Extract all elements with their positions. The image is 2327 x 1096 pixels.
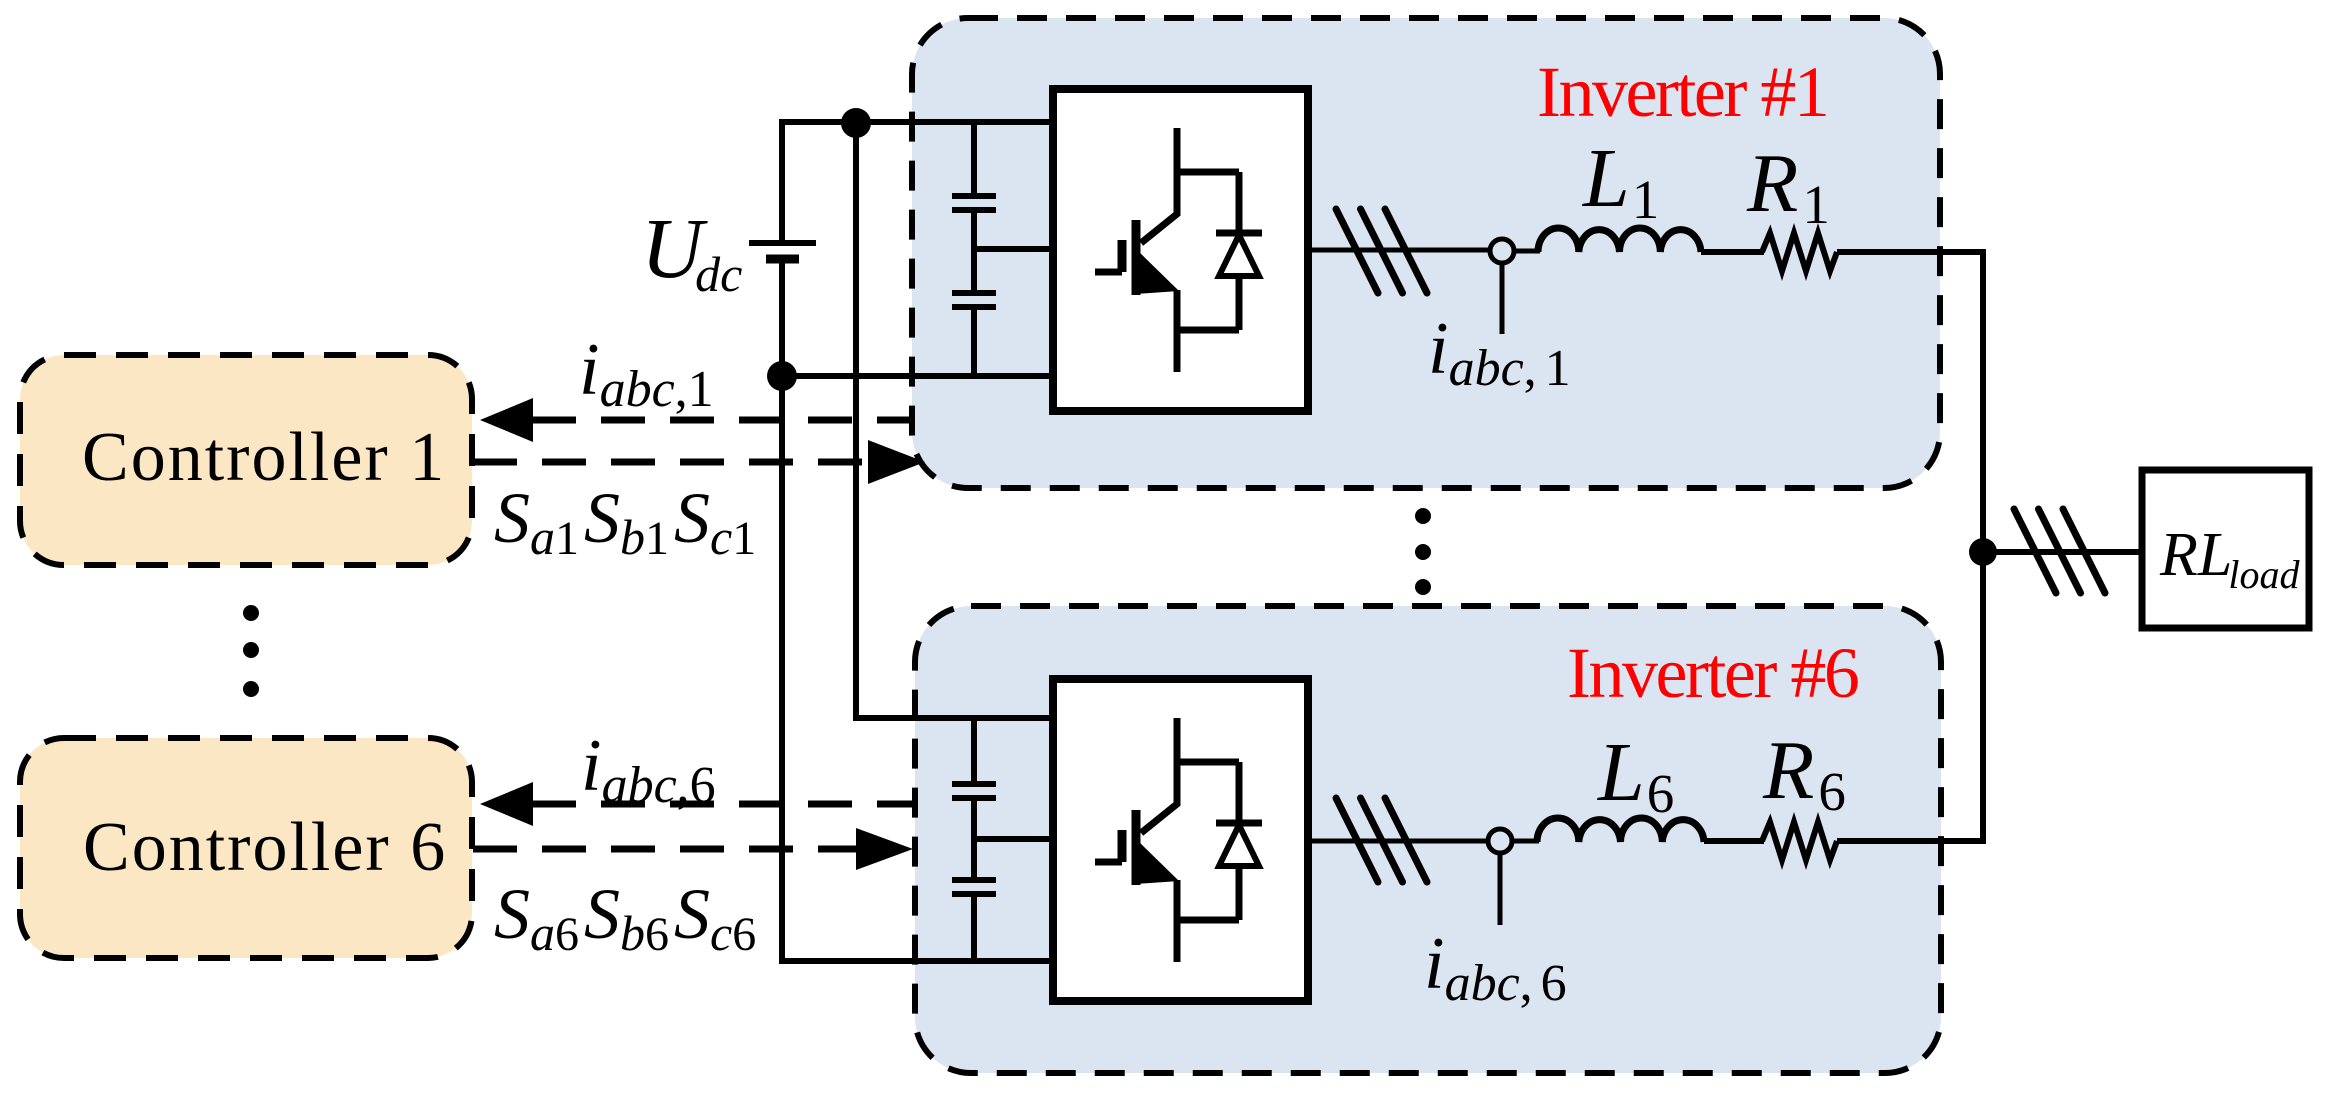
wire: inverter 1 return bus bbox=[782, 373, 1053, 379]
three-phase marks load feeder bbox=[2014, 509, 2105, 593]
wire: DC negative down-drop bbox=[779, 376, 785, 964]
junction node on return bus bbox=[767, 361, 797, 391]
label Sa1 Sb1 Sc1 bbox=[494, 478, 756, 565]
wire: DC source positive drop bbox=[779, 119, 785, 243]
junction node on top bus bbox=[841, 108, 871, 138]
controller 1 box bbox=[20, 355, 472, 565]
svg-text:Controller 1: Controller 1 bbox=[82, 419, 446, 496]
capacitor bank inverter 1 (two series capacitors) bbox=[952, 122, 996, 376]
capacitor bank inverter 6 (two series capacitors) bbox=[952, 718, 996, 961]
three-phase marks inverter 6 output bbox=[1336, 798, 1427, 882]
svg-text:Controller 6: Controller 6 bbox=[83, 809, 447, 886]
current sensor node i_abc,6 bbox=[1488, 829, 1512, 853]
wire: DC midpoint link inverter 1 bbox=[974, 246, 1053, 252]
controller 6 box bbox=[20, 738, 472, 958]
IGBT module inverter 1 bbox=[1053, 89, 1308, 411]
load RL_load box bbox=[2142, 470, 2309, 628]
dashed feedback i_abc,6 to controller 6 bbox=[532, 801, 915, 808]
wire: R6 to common bus bbox=[1837, 838, 1986, 844]
wire: sensor stub inverter 6 bbox=[1498, 853, 1503, 925]
dashed gate signals controller 1 to inverter 1 bbox=[473, 459, 868, 466]
wire: L1 to R1 bbox=[1701, 249, 1764, 255]
wire: sensor to inductor inverter 6 bbox=[1512, 839, 1539, 844]
arrowhead into inverter 1 bbox=[868, 440, 925, 484]
inverter #1 enclosure (dashed blue box) bbox=[912, 18, 1940, 488]
dashed feedback i_abc,1 to controller 1 bbox=[532, 417, 909, 424]
wire: inverter 6 AC output bbox=[1307, 839, 1488, 844]
arrowhead into controller 6 bbox=[480, 782, 533, 826]
ellipsis between inverters bbox=[1415, 508, 1431, 595]
svg-text:Inverter #1: Inverter #1 bbox=[1537, 52, 1827, 132]
inductor L6 bbox=[1537, 818, 1704, 842]
wire: sensor stub inverter 1 bbox=[1500, 263, 1505, 334]
junction node at load tap bbox=[1969, 538, 1997, 566]
dashed gate signals controller 6 to inverter 6 bbox=[473, 846, 856, 853]
wire: sensor to inductor inverter 1 bbox=[1514, 249, 1540, 254]
wire: load feeder bbox=[1983, 549, 2142, 555]
arrowhead into inverter 6 bbox=[856, 828, 913, 870]
wire: DC midpoint link inverter 6 bbox=[974, 836, 1053, 842]
three-phase marks inverter 1 output bbox=[1336, 209, 1427, 293]
wire: positive bus drop to inverter 6 bbox=[856, 123, 1053, 718]
resistor R1 bbox=[1762, 233, 1837, 271]
label Sa6 Sb6 Sc6 bbox=[494, 874, 756, 961]
wire: inverter 6 return bus bbox=[782, 958, 1053, 964]
arrowhead into controller 1 bbox=[480, 398, 533, 442]
inductor L1 bbox=[1538, 228, 1701, 252]
svg-text:Inverter #6: Inverter #6 bbox=[1567, 633, 1858, 713]
wire: inverter 1 AC output bbox=[1308, 248, 1490, 253]
IGBT module inverter 6 bbox=[1053, 679, 1308, 1001]
wire: L6 to R6 bbox=[1704, 838, 1764, 844]
wire: R1 to common bus bbox=[1837, 249, 1986, 255]
resistor R6 bbox=[1762, 822, 1837, 860]
DC source Udc (battery) bbox=[749, 243, 816, 376]
ellipsis between controllers bbox=[243, 605, 259, 697]
wire: top DC bus to inverter 1 bbox=[780, 119, 1053, 125]
current sensor node i_abc,1 bbox=[1490, 239, 1514, 263]
inverter #6 enclosure (dashed blue box) bbox=[915, 606, 1941, 1073]
wire: common AC bus (vertical) bbox=[1980, 252, 1986, 841]
